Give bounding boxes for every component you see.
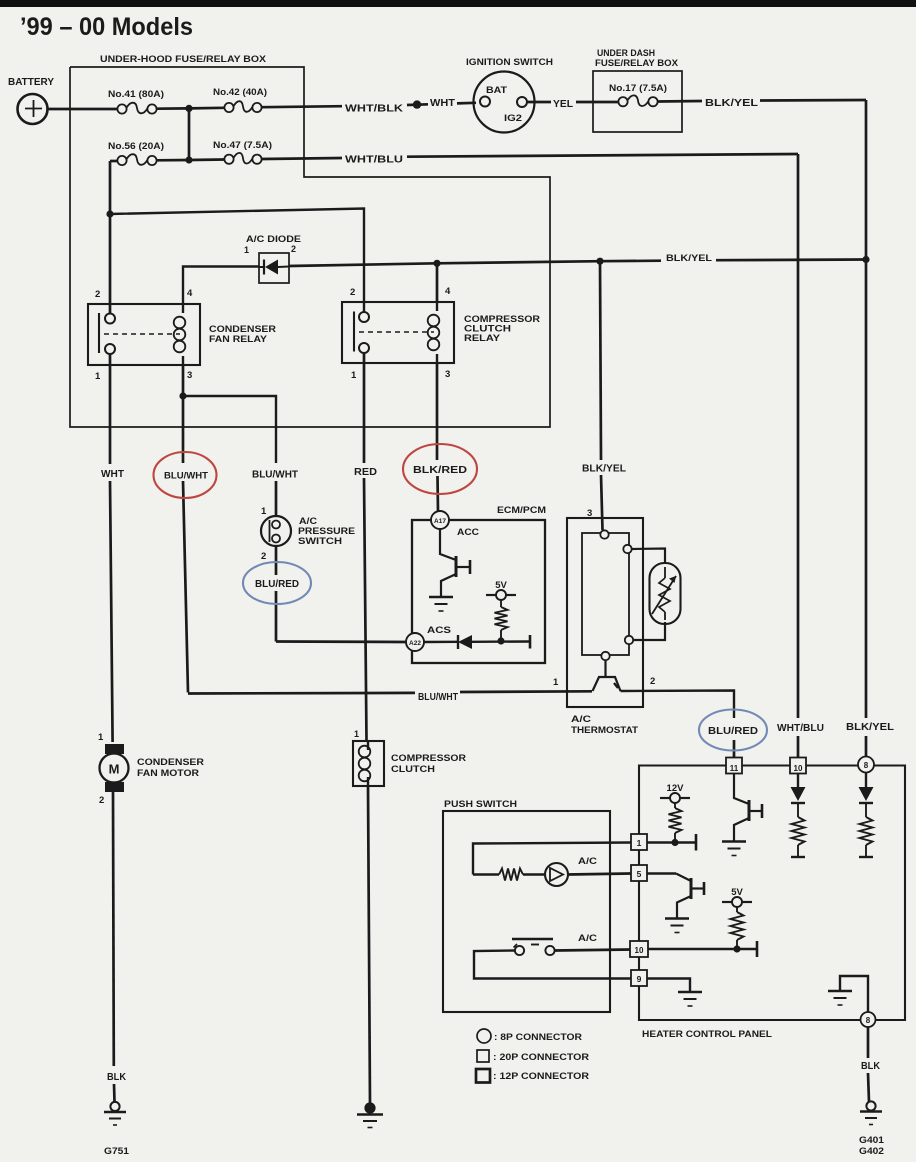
svg-text:A/C: A/C bbox=[571, 714, 591, 725]
top black border bar bbox=[0, 0, 916, 7]
transistor Q3 at connector 5 bbox=[647, 874, 704, 919]
svg-text:4: 4 bbox=[445, 286, 451, 297]
svg-text:BLU/RED: BLU/RED bbox=[255, 579, 299, 590]
svg-text:HEATER CONTROL PANEL: HEATER CONTROL PANEL bbox=[642, 1029, 772, 1040]
junction right vertical / horizontal BLK/YEL bbox=[862, 256, 869, 263]
ignition switch bbox=[466, 57, 553, 133]
svg-text:M: M bbox=[109, 762, 120, 777]
fuse No.56 (20A) bbox=[108, 141, 164, 165]
svg-text:BATTERY: BATTERY bbox=[8, 77, 54, 88]
legend 8P connector bbox=[477, 1029, 582, 1043]
connector A17 (8P) bbox=[431, 511, 449, 529]
wire BLU/RED to ECM A22 bbox=[276, 640, 406, 643]
ground bottom right internal bbox=[828, 990, 852, 993]
svg-text:1: 1 bbox=[95, 371, 101, 382]
condenser fan motor bbox=[98, 732, 204, 806]
svg-text:G751: G751 bbox=[104, 1146, 130, 1157]
wire fuse42 to WHT/BLK label bbox=[262, 106, 342, 107]
wire row2 corner to fuse No.56 bbox=[110, 160, 117, 163]
svg-text:1: 1 bbox=[553, 677, 559, 688]
wire condenser relay pin1 WHT down bbox=[110, 354, 113, 742]
fuse No.47 (7.5A) bbox=[213, 140, 272, 164]
wire connector10 internal to terminal bbox=[648, 941, 757, 957]
svg-text:1: 1 bbox=[244, 245, 249, 255]
wire compressor relay pin3 BLK/RED down bbox=[437, 363, 438, 512]
junction row2 bbox=[185, 156, 192, 163]
svg-text:ACS: ACS bbox=[427, 625, 451, 636]
svg-text:A17: A17 bbox=[434, 518, 446, 525]
svg-text:G402: G402 bbox=[859, 1146, 884, 1157]
condenser fan relay bbox=[88, 288, 276, 382]
wire connector8 to ground G401/G402 bbox=[868, 1027, 869, 1102]
svg-text:UNDER-HOOD FUSE/RELAY BOX: UNDER-HOOD FUSE/RELAY BOX bbox=[100, 54, 267, 65]
transistor Q2 at connector 11 bbox=[734, 774, 762, 842]
svg-text:No.41 (80A): No.41 (80A) bbox=[108, 89, 164, 99]
wire to thermostat tap bbox=[437, 261, 600, 263]
svg-text:YEL: YEL bbox=[553, 99, 573, 110]
wire to BLK/YEL mid label bbox=[600, 259, 661, 262]
wire BLK/YEL down to thermostat bbox=[600, 261, 603, 530]
wire push switch pin1 loop bbox=[473, 843, 631, 875]
svg-text:A22: A22 bbox=[409, 640, 421, 647]
svg-text:BLK/YEL: BLK/YEL bbox=[582, 464, 626, 475]
svg-text:BLK: BLK bbox=[107, 1072, 127, 1083]
svg-text:: 8P CONNECTOR: : 8P CONNECTOR bbox=[494, 1032, 582, 1043]
svg-text:BAT: BAT bbox=[486, 85, 507, 96]
ECM/PCM box bbox=[412, 505, 546, 663]
wire row2 left vertical drop bbox=[109, 161, 112, 214]
blue ellipse around BLU/RED right bbox=[699, 710, 767, 751]
wire thermostat pin2 to heater panel 11 bbox=[621, 691, 735, 758]
svg-text:BLU/RED: BLU/RED bbox=[708, 726, 758, 737]
resistor R5 below D3 bbox=[791, 803, 805, 857]
svg-text:IG2: IG2 bbox=[504, 113, 522, 124]
wire clutch to ground bbox=[368, 786, 370, 1104]
svg-text:5: 5 bbox=[637, 869, 642, 879]
svg-text:2: 2 bbox=[291, 244, 296, 254]
ground in ECM bbox=[429, 596, 453, 599]
wire ignition to YEL bbox=[527, 101, 551, 104]
wire BLK/YEL label to right vertical bbox=[716, 258, 866, 261]
heater control panel box bbox=[639, 766, 905, 1041]
svg-text:2: 2 bbox=[650, 676, 655, 687]
svg-text:: 20P CONNECTOR: : 20P CONNECTOR bbox=[493, 1052, 589, 1063]
svg-text:SWITCH: SWITCH bbox=[298, 536, 342, 547]
connector 10 left (12P) bbox=[630, 941, 648, 957]
svg-text:G401: G401 bbox=[859, 1135, 885, 1146]
wire fuse41 to junction bbox=[157, 107, 189, 110]
svg-text:No.17 (7.5A): No.17 (7.5A) bbox=[609, 83, 667, 93]
wire connector1 internal to terminal bbox=[647, 834, 696, 851]
under-hood fuse/relay box outline bbox=[70, 54, 550, 427]
fuse No.17 (7.5A) bbox=[609, 83, 667, 106]
wire BLU/WHT drop to pressure switch bbox=[275, 481, 278, 517]
connector A22 (8P) bbox=[406, 633, 424, 651]
svg-text:8: 8 bbox=[864, 761, 869, 770]
wire compressor relay pin1 RED down bbox=[364, 353, 367, 741]
svg-text:4: 4 bbox=[187, 288, 193, 299]
svg-text:2: 2 bbox=[95, 289, 100, 300]
wire junction down to condenser relay pin2 bbox=[109, 214, 112, 314]
A/C diode D1 bbox=[244, 234, 301, 283]
wire pressure switch pin2 down BLU/RED bbox=[275, 546, 278, 642]
svg-text:UNDER DASH: UNDER DASH bbox=[597, 48, 655, 58]
push switch box bbox=[443, 799, 610, 1012]
A/C indicator lamp bbox=[545, 863, 568, 886]
svg-text:BLK/RED: BLK/RED bbox=[413, 465, 467, 476]
junction pin3 split bbox=[179, 392, 186, 399]
svg-text:A/C: A/C bbox=[578, 933, 597, 944]
svg-text:10: 10 bbox=[635, 946, 644, 955]
wire WHT/BLU vertical down to heater panel bbox=[797, 154, 800, 757]
svg-text:8: 8 bbox=[866, 1016, 871, 1025]
svg-text:BLK/YEL: BLK/YEL bbox=[666, 253, 712, 264]
wire fuse47 to WHT/BLU label bbox=[262, 158, 342, 159]
svg-text:2: 2 bbox=[350, 287, 355, 298]
connector 9 (12P) bbox=[631, 970, 647, 986]
junction thermostat BLK/YEL tap bbox=[596, 258, 603, 265]
A/C thermostat bbox=[553, 508, 655, 736]
wire junction across to compressor relay pin2 bbox=[110, 209, 364, 314]
svg-text:3: 3 bbox=[187, 370, 192, 381]
wire fuse56 to junction bbox=[157, 159, 189, 162]
svg-text:FUSE/RELAY BOX: FUSE/RELAY BOX bbox=[595, 58, 678, 68]
wire YEL to under-dash box bbox=[576, 101, 618, 104]
svg-text:COMPRESSOR: COMPRESSOR bbox=[391, 753, 466, 764]
wire condenser relay pin4 riser bbox=[183, 267, 259, 305]
svg-text:: 12P CONNECTOR: : 12P CONNECTOR bbox=[493, 1071, 589, 1082]
thermostat switch contact bbox=[593, 660, 621, 691]
junction row1 bbox=[185, 105, 192, 112]
junction compressor relay pin4 tap bbox=[433, 260, 440, 267]
svg-text:CONDENSER: CONDENSER bbox=[137, 757, 204, 768]
wire pin3 jog to pressure switch drop bbox=[183, 396, 276, 463]
svg-text:3: 3 bbox=[445, 369, 450, 380]
resistor R4 5V pull-up bbox=[731, 907, 744, 949]
svg-text:BLU/WHT: BLU/WHT bbox=[252, 470, 298, 481]
svg-text:FAN RELAY: FAN RELAY bbox=[209, 334, 268, 345]
diode D2 in ECM with wire bbox=[424, 635, 530, 649]
compressor clutch coil bbox=[367, 741, 369, 750]
wire right vertical BLK/YEL lower bbox=[865, 260, 868, 757]
connector 11 (20P) bbox=[726, 758, 742, 774]
svg-text:1: 1 bbox=[637, 838, 642, 848]
A/C pressure switch bbox=[261, 506, 355, 562]
compressor relay coil bbox=[436, 302, 438, 311]
fuse No.42 (40A) bbox=[213, 87, 267, 112]
transistor Q1 in ECM bbox=[440, 529, 470, 596]
svg-text:A/C: A/C bbox=[578, 856, 597, 867]
svg-text:9: 9 bbox=[637, 974, 642, 984]
svg-text:RELAY: RELAY bbox=[464, 333, 501, 344]
wire connector9 internal to ground bbox=[647, 979, 690, 992]
wire WHT/BLU to right corner bbox=[407, 154, 798, 157]
svg-text:FAN MOTOR: FAN MOTOR bbox=[137, 768, 199, 779]
svg-text:WHT: WHT bbox=[101, 469, 124, 480]
ground Q3 emitter bbox=[665, 917, 689, 920]
connector 8 bottom (8P) bbox=[861, 1012, 876, 1027]
svg-text:No.56 (20A): No.56 (20A) bbox=[108, 141, 164, 151]
svg-text:BLK: BLK bbox=[861, 1061, 881, 1072]
connector 1 (12P) bbox=[631, 834, 647, 850]
svg-text:BLK/YEL: BLK/YEL bbox=[846, 722, 894, 733]
svg-text:’99 – 00 Models: ’99 – 00 Models bbox=[20, 13, 193, 41]
svg-text:2: 2 bbox=[261, 551, 266, 562]
svg-text:2: 2 bbox=[99, 795, 104, 806]
svg-text:WHT/BLU: WHT/BLU bbox=[345, 155, 403, 166]
wire fuse17 to BLK/YEL label bbox=[658, 100, 702, 103]
diode D3 below WHT/BLU connector 10 bbox=[797, 774, 799, 788]
wire BLU/WHT into thermostat pin1 bbox=[188, 691, 592, 693]
svg-text:10: 10 bbox=[794, 764, 803, 773]
under-dash fuse/relay box bbox=[593, 48, 682, 132]
ground connector9 bbox=[678, 991, 702, 994]
legend 20P connector bbox=[477, 1050, 589, 1063]
resistor R6 below D4 bbox=[859, 803, 873, 857]
wire right vertical BLK/YEL upper bbox=[865, 100, 868, 259]
junction 5V to pin10 line bbox=[733, 945, 740, 952]
thermostat thermistor element bbox=[632, 549, 681, 641]
condenser relay coil bbox=[182, 304, 184, 313]
connector 10 top (20P) bbox=[790, 758, 806, 774]
battery bbox=[8, 77, 54, 124]
wire internal ground loop bottom right bbox=[840, 976, 868, 1012]
wire pin3 BLU/WHT vertical (circled) bbox=[183, 396, 188, 693]
fuse No.41 (80A) bbox=[108, 89, 164, 114]
wire WHT to ignition switch bbox=[457, 101, 476, 104]
junction left drop bbox=[106, 210, 113, 217]
svg-text:PUSH SWITCH: PUSH SWITCH bbox=[444, 799, 517, 810]
wire junction to fuse No.47 bbox=[189, 158, 224, 161]
red ellipse around BLK/RED bbox=[403, 444, 477, 494]
svg-text:RED: RED bbox=[354, 467, 377, 478]
compressor clutch bbox=[353, 729, 466, 786]
red ellipse around BLU/WHT bbox=[154, 452, 217, 498]
svg-text:ECM/PCM: ECM/PCM bbox=[497, 505, 546, 516]
ground G751 bbox=[104, 1102, 130, 1157]
wire vertical joining row1 and row2 bbox=[188, 108, 191, 160]
svg-text:WHT/BLU: WHT/BLU bbox=[777, 723, 824, 734]
svg-text:CLUTCH: CLUTCH bbox=[391, 764, 435, 775]
wire compressor relay pin4 riser bbox=[436, 263, 439, 302]
svg-text:No.42 (40A): No.42 (40A) bbox=[213, 87, 267, 97]
wire A/C momentary switch to connector 10 bbox=[474, 950, 631, 979]
wire BLK/YEL to right edge bbox=[760, 99, 866, 102]
resistor R1 in ECM bbox=[495, 600, 508, 641]
svg-text:THERMOSTAT: THERMOSTAT bbox=[571, 725, 638, 736]
svg-text:BLK/YEL: BLK/YEL bbox=[705, 98, 758, 109]
svg-text:1: 1 bbox=[354, 729, 359, 739]
svg-text:1: 1 bbox=[261, 506, 267, 517]
wire condenser relay pin3 down bbox=[182, 365, 185, 396]
resistor R3 12V pull-up bbox=[669, 803, 682, 842]
svg-text:No.47 (7.5A): No.47 (7.5A) bbox=[213, 140, 272, 150]
wire diode to compressor pin4 junction bbox=[289, 263, 437, 266]
compressor clutch relay bbox=[342, 286, 540, 381]
svg-text:1: 1 bbox=[351, 370, 357, 381]
ground compressor clutch bbox=[357, 1102, 383, 1127]
svg-text:WHT/BLK: WHT/BLK bbox=[345, 104, 404, 115]
wire with splice bullet bbox=[407, 100, 428, 108]
svg-text:1: 1 bbox=[98, 732, 104, 743]
junction 12V to pin1 line bbox=[671, 839, 678, 846]
ground G401 G402 bbox=[859, 1101, 885, 1157]
connector 5 (12P) bbox=[631, 865, 647, 881]
svg-text:ACC: ACC bbox=[457, 527, 479, 538]
svg-text:IGNITION SWITCH: IGNITION SWITCH bbox=[466, 57, 553, 68]
blue ellipse around BLU/RED bbox=[243, 562, 311, 604]
connector 8 top (8P) bbox=[858, 757, 874, 773]
ground Q2 emitter bbox=[722, 840, 746, 843]
wire lamp to connector 5 bbox=[568, 874, 631, 875]
A/C momentary switch bbox=[512, 939, 555, 955]
wire junction to fuse No.42 bbox=[189, 106, 224, 109]
svg-text:WHT: WHT bbox=[430, 98, 455, 109]
diode D4 below BLK/YEL connector 8 bbox=[865, 773, 867, 788]
svg-text:BLU/WHT: BLU/WHT bbox=[164, 471, 208, 482]
legend 12P connector bbox=[476, 1069, 589, 1083]
svg-text:BLU/WHT: BLU/WHT bbox=[418, 692, 458, 703]
resistor R2 in push switch bbox=[473, 869, 545, 881]
wire battery to fuse No.41 bbox=[47, 108, 117, 111]
junction resistor to ACS line bbox=[497, 637, 504, 644]
wire motor to ground BLK bbox=[113, 792, 115, 1102]
svg-text:11: 11 bbox=[730, 764, 739, 773]
